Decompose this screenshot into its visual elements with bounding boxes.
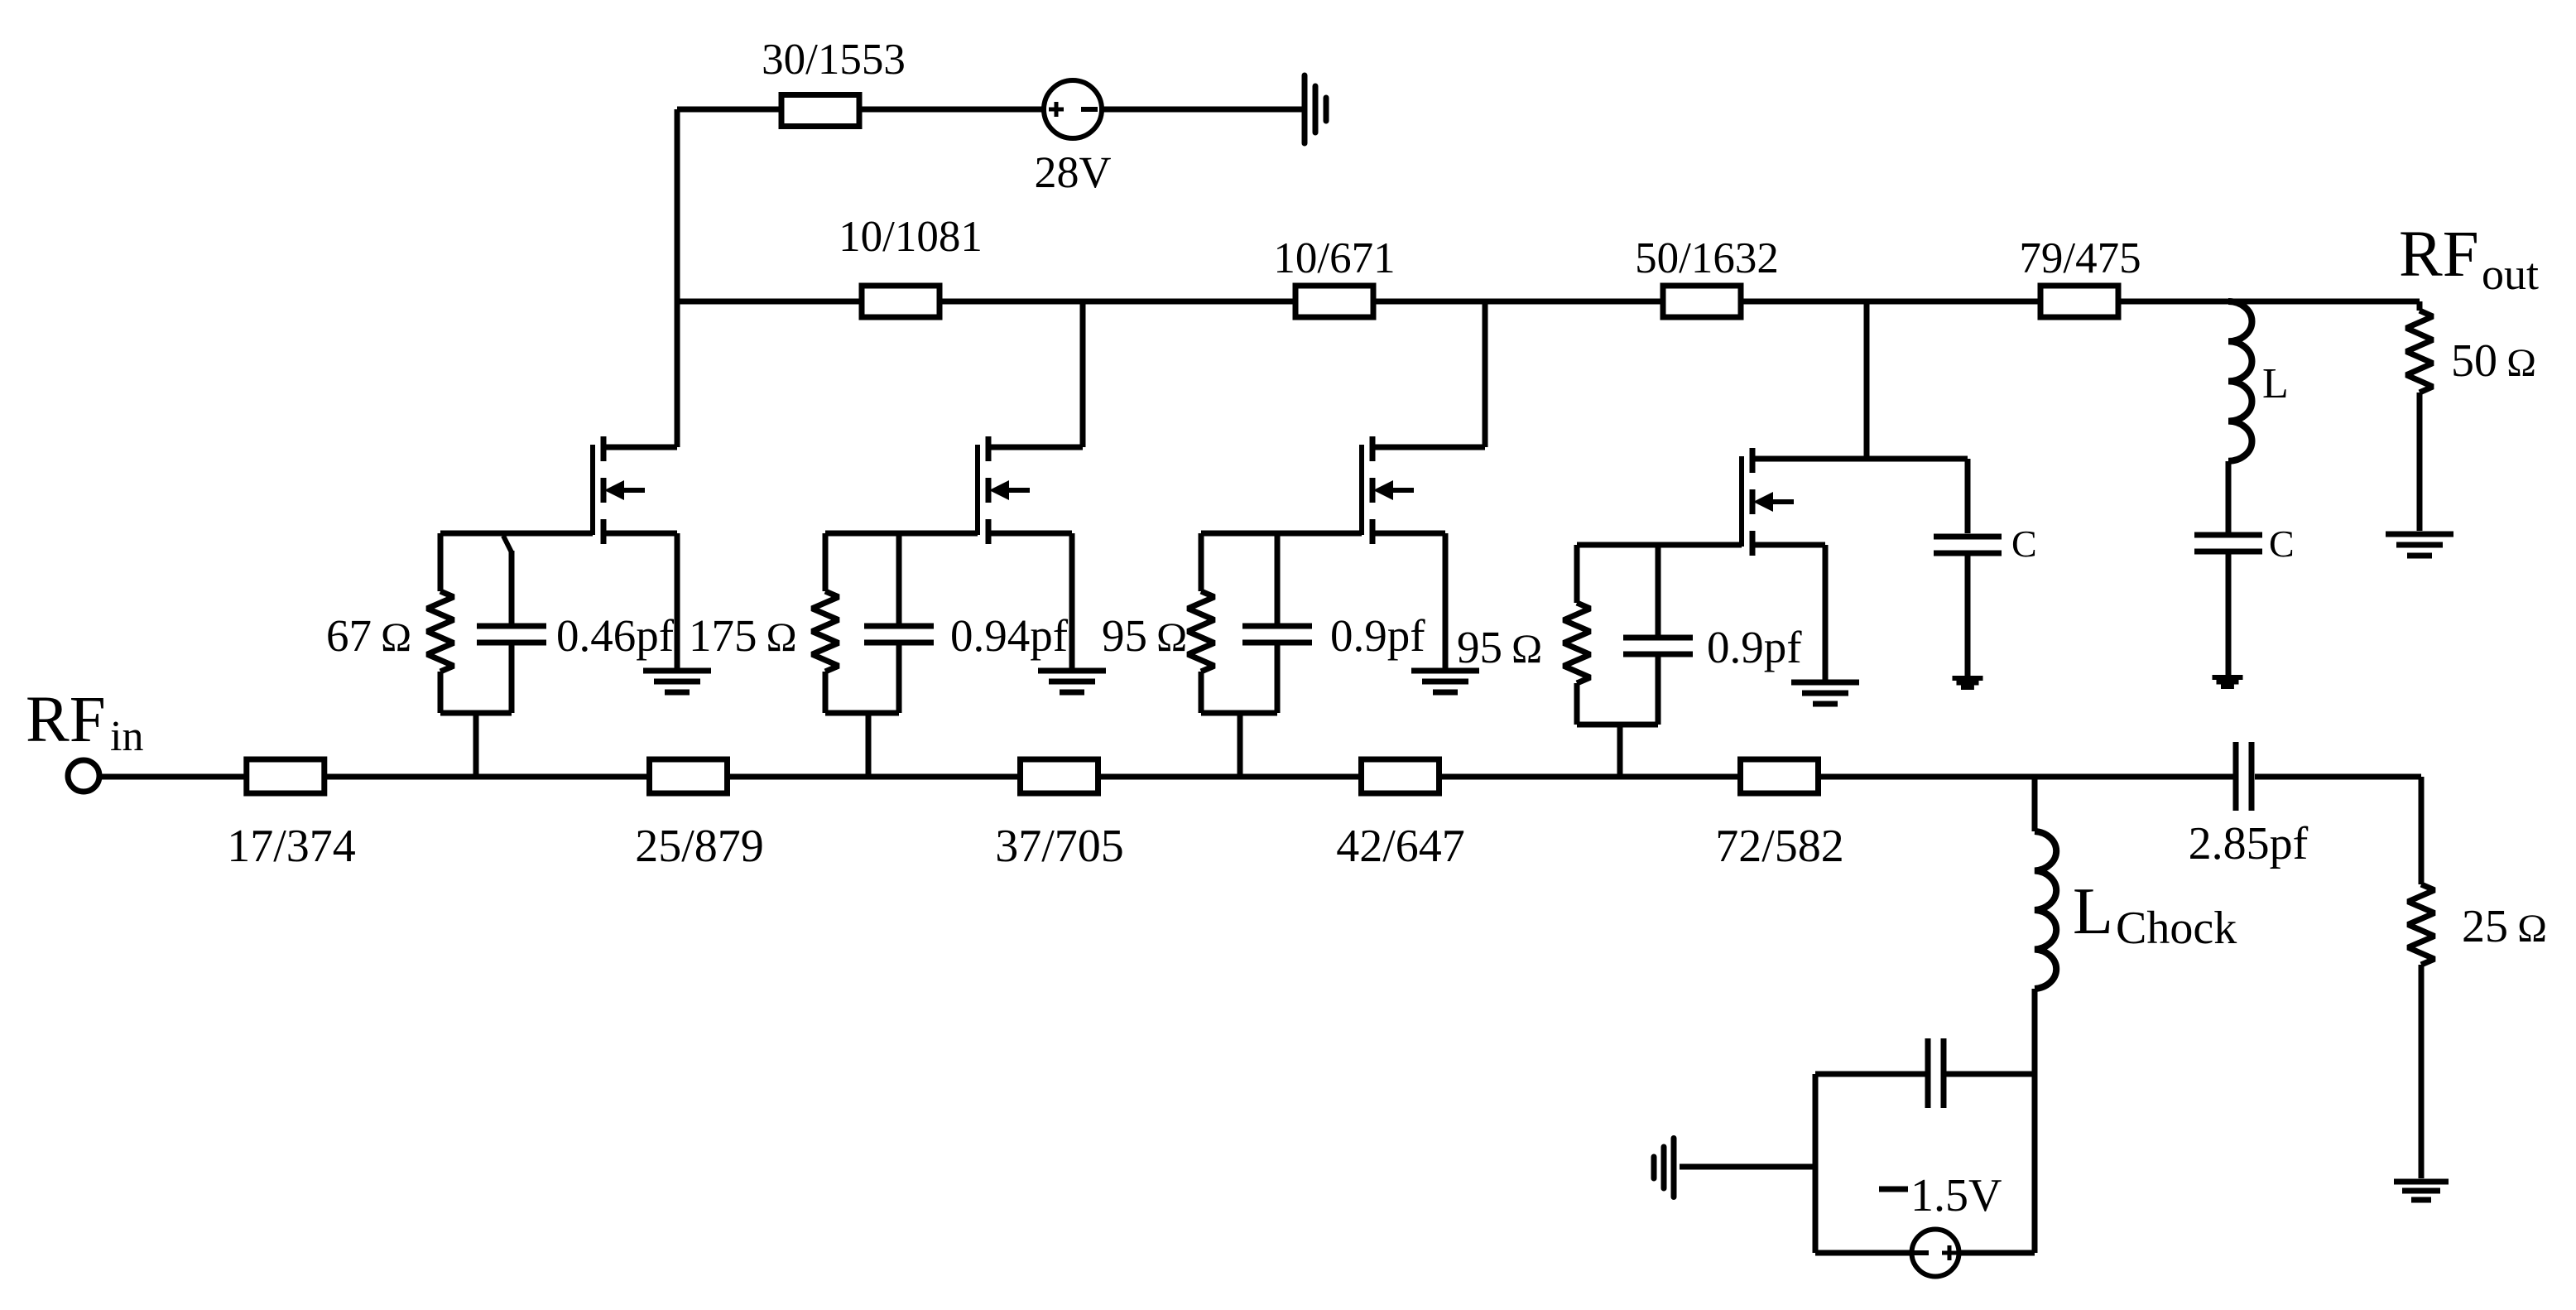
resistor Rg1 67&#8201;<tspan font-size="50">&#937;</tspan>: [427, 533, 454, 713]
svg-text:50 Ω: 50 Ω: [2451, 335, 2536, 387]
svg-text:0.46pf: 0.46pf: [556, 610, 675, 661]
label 25 ohm: [2462, 901, 2547, 952]
label 10/1081: [839, 213, 983, 261]
svg-text:0.94pf: 0.94pf: [950, 610, 1069, 661]
wire: [940, 299, 1295, 305]
capacitor Cg2 0.94pf: [864, 533, 934, 713]
wire gate lead Q1: [440, 531, 593, 537]
ground (arrow): [1953, 676, 1983, 690]
svg-text:50/1632: 50/1632: [1635, 234, 1779, 282]
ground (50 ohm): [2386, 534, 2453, 556]
wire gate lead Q4: [1577, 542, 1742, 548]
svg-text:0.9pf: 0.9pf: [1330, 610, 1425, 661]
svg-text:10/671: 10/671: [1273, 234, 1395, 282]
wire: [1103, 107, 1302, 113]
svg-text:C: C: [2269, 523, 2295, 565]
capacitor (bias bypass): [1815, 1038, 2035, 1108]
label 0.9pf: [1707, 622, 1802, 672]
label 42/647: [1336, 821, 1465, 872]
wire Q4 source lead: [1752, 545, 1825, 682]
wire gate bus: [102, 774, 247, 780]
svg-text:L: L: [2262, 360, 2289, 407]
svg-text:95 Ω: 95 Ω: [1102, 610, 1187, 661]
label C: [2269, 523, 2295, 565]
transmission line TL6 17/374: [247, 759, 324, 793]
label -1.5V: [1879, 1170, 2002, 1221]
svg-text:out: out: [2482, 249, 2539, 299]
label 28V: [1035, 147, 1112, 197]
voltage source 28V: [1044, 80, 1102, 138]
transmission line TL1 30/1553: [781, 95, 859, 127]
label RFout: [2399, 219, 2539, 299]
svg-text:10/1081: 10/1081: [839, 213, 983, 261]
wire bias ground stub: [1680, 1164, 1815, 1170]
wire Q4 drain lead: [1752, 456, 1968, 462]
wire: [1101, 774, 1358, 780]
svg-text:28V: 28V: [1035, 147, 1112, 197]
resistor 50ohm: [2406, 301, 2433, 531]
wire: [677, 107, 779, 113]
svg-text:37/705: 37/705: [995, 821, 1124, 872]
ground (top right): [1305, 75, 1326, 143]
capacitor Cg3 0.9pf: [1242, 533, 1312, 713]
transmission line TL3 10/671: [1295, 286, 1373, 317]
svg-text:72/582: 72/582: [1715, 821, 1844, 872]
svg-text:1.5V: 1.5V: [1910, 1170, 2002, 1221]
svg-text:25 Ω: 25 Ω: [2462, 901, 2547, 952]
resistor Rg4 95&#8201;<tspan font-size="50">&#937;</tspan>: [1564, 545, 1590, 725]
label 10/671: [1273, 234, 1395, 282]
label C: [2011, 523, 2037, 565]
port RFin terminal: [68, 760, 99, 792]
wire gate lead Q3: [1201, 531, 1362, 537]
wire Q2 source lead: [988, 533, 1072, 671]
ground (arrow): [2213, 675, 2243, 689]
transistor Q4: [1742, 448, 1794, 556]
ground (Q2 source): [1038, 671, 1106, 692]
transmission line TL7 25/879: [650, 759, 728, 793]
capacitor 2.85pf (series): [2236, 742, 2252, 811]
resistor Rg2 175&#8201;<tspan font-size="50">&#937;</tspan>: [812, 533, 839, 713]
wire bias box left: [1813, 1074, 1819, 1253]
wire Q1 source lead: [603, 533, 677, 671]
transistor Q2: [978, 436, 1030, 544]
svg-text:Chock: Chock: [2116, 903, 2237, 954]
svg-text:0.9pf: 0.9pf: [1707, 622, 1802, 672]
wire Q3 source lead: [1372, 533, 1445, 671]
voltage source -1.5V: [1815, 1230, 2035, 1277]
label 17/374: [227, 821, 356, 872]
transistor Q1: [593, 436, 645, 544]
label L: [2262, 360, 2289, 407]
capacitor Cg4 0.9pf: [1623, 545, 1693, 725]
wire RC1 bottom: [440, 713, 512, 777]
wire: [1442, 774, 1737, 780]
svg-text:C: C: [2011, 523, 2037, 565]
svg-text:17/374: 17/374: [227, 821, 356, 872]
wire RC4 bottom: [1577, 725, 1658, 777]
wire: [1741, 299, 2040, 305]
transistor Q3: [1362, 436, 1414, 544]
wire: [327, 774, 646, 780]
transmission line TL2 10/1081: [862, 286, 940, 317]
transmission line TL8 37/705: [1021, 759, 1098, 793]
label 0.46pf: [556, 610, 675, 661]
transmission line TL10 72/582: [1741, 759, 1819, 793]
label 25/879: [635, 821, 764, 872]
svg-text:in: in: [110, 713, 143, 760]
wire gate lead Q2: [825, 531, 978, 537]
wire Q2 drain: [1080, 301, 1086, 447]
capacitor C (drain bypass 1): [1934, 459, 2002, 677]
wire: [861, 107, 1042, 113]
label RFin: [26, 684, 143, 760]
wire Q1 drain lead: [603, 445, 677, 450]
wire: [1821, 774, 2233, 780]
capacitor Cg1 0.46pf: [477, 536, 546, 713]
transmission line TL4 50/1632: [1663, 286, 1741, 317]
svg-text:RF: RF: [26, 684, 106, 756]
wire: [1373, 299, 1663, 305]
inductor Lchock: [2035, 777, 2056, 1253]
label 0.9pf: [1330, 610, 1425, 661]
resistor Rg3 95&#8201;<tspan font-size="50">&#937;</tspan>: [1188, 533, 1214, 713]
label 72/582: [1715, 821, 1844, 872]
label 50 ohm: [2451, 335, 2536, 387]
wire RC3 bottom: [1201, 713, 1277, 777]
transmission line TL9 42/647: [1362, 759, 1439, 793]
svg-text:42/647: 42/647: [1336, 821, 1465, 872]
inductor L: [2228, 301, 2252, 533]
label 0.94pf: [950, 610, 1069, 661]
label LChock: [2073, 875, 2237, 954]
svg-text:79/475: 79/475: [2019, 234, 2141, 282]
wire: [675, 109, 680, 447]
svg-text:2.85pf: 2.85pf: [2189, 818, 2309, 869]
svg-text:175 Ω: 175 Ω: [689, 610, 797, 661]
wire RC2 bottom: [825, 713, 899, 777]
wire: [2118, 299, 2420, 305]
svg-text:67 Ω: 67 Ω: [326, 610, 411, 661]
wire Q3 drain: [1483, 301, 1488, 447]
wire Q2 drain lead: [988, 445, 1083, 450]
ground (Q3 source): [1411, 671, 1479, 692]
ground (Q4 source): [1791, 682, 1859, 704]
label 2.85pf: [2189, 818, 2309, 869]
wire Q4 drain: [1864, 301, 1870, 459]
capacitor C (drain bypass 2): [2194, 535, 2262, 677]
label 79/475: [2019, 234, 2141, 282]
ground (bias, rotated): [1654, 1139, 1674, 1197]
svg-text:25/879: 25/879: [635, 821, 764, 872]
label 30/1553: [762, 36, 906, 84]
wire: [2255, 777, 2421, 884]
label 50/1632: [1635, 234, 1779, 282]
wire drain bus: [677, 299, 862, 305]
label 37/705: [995, 821, 1124, 872]
svg-text:L: L: [2073, 875, 2113, 948]
wire: [730, 774, 1017, 780]
svg-text:95 Ω: 95 Ω: [1457, 622, 1542, 672]
wire Q3 drain lead: [1372, 445, 1485, 450]
label resistor value: [689, 610, 797, 661]
ground (Q1 source): [643, 671, 711, 692]
resistor 25ohm: [2408, 884, 2434, 1178]
svg-text:RF: RF: [2399, 219, 2479, 291]
transmission line TL5 79/475: [2040, 286, 2118, 317]
ground (25 ohm): [2394, 1182, 2449, 1200]
label resistor value: [326, 610, 411, 661]
label resistor value: [1457, 622, 1542, 672]
svg-text:30/1553: 30/1553: [762, 36, 906, 84]
label resistor value: [1102, 610, 1187, 661]
